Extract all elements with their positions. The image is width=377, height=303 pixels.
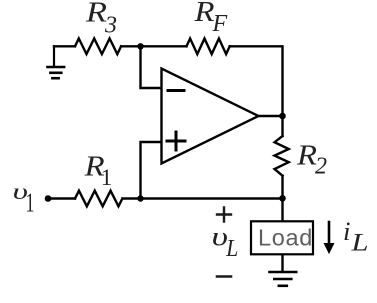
node: output junction <box>279 113 286 120</box>
label R2 <box>296 140 327 179</box>
svg-text:Load: Load <box>258 224 313 250</box>
resistor R3 <box>75 39 121 55</box>
resistor R2 <box>275 136 289 176</box>
svg-text:1: 1 <box>26 188 35 218</box>
label R1 <box>84 151 113 190</box>
ground (load) <box>270 272 297 286</box>
wire: node to load box <box>281 199 283 222</box>
svg-text:R: R <box>85 0 107 29</box>
node: load junction <box>279 195 286 202</box>
resistor RF <box>187 39 230 55</box>
svg-text:L: L <box>350 230 368 257</box>
label R3 <box>85 0 117 38</box>
label v1 <box>13 179 35 218</box>
wire: output node to R2 <box>281 116 283 136</box>
svg-text:L: L <box>225 236 238 262</box>
resistor R1 <box>75 191 122 207</box>
svg-text:1: 1 <box>101 165 113 190</box>
svg-text:F: F <box>212 11 228 37</box>
node: non-inverting junction <box>137 195 143 201</box>
ground (top-left) <box>48 46 65 78</box>
wire: load box to ground <box>281 255 283 272</box>
label iL <box>343 217 369 257</box>
node: inverting-input junction <box>137 43 143 49</box>
wire: non-inverting input <box>141 142 162 199</box>
wire: v1 to R1 <box>48 197 75 199</box>
terminal dot v1 <box>45 195 52 202</box>
op-amp U1 <box>162 69 259 164</box>
op-amp minus sign <box>168 89 184 92</box>
op-amp plus sign <box>167 132 185 150</box>
wire: ground corner to R3 <box>54 45 75 47</box>
wire: bottom rail R1 to load node <box>123 197 283 199</box>
wire: R3 to RF <box>121 45 186 47</box>
label vL <box>212 222 239 262</box>
wire: inverting input <box>141 46 162 88</box>
label - (load) <box>217 275 231 278</box>
label RF <box>193 0 227 37</box>
arrow iL <box>324 222 333 253</box>
svg-text:2: 2 <box>315 154 327 180</box>
wire: R2 to bottom node <box>281 176 283 199</box>
svg-text:3: 3 <box>104 12 117 38</box>
load box <box>251 221 313 254</box>
svg-text:R: R <box>296 140 317 171</box>
svg-text:R: R <box>193 0 214 28</box>
wire: RF to right corner, down to output node <box>230 46 283 116</box>
wire: op-amp output to node <box>259 115 283 117</box>
svg-text:i: i <box>343 217 351 246</box>
label + (load) <box>217 208 231 222</box>
